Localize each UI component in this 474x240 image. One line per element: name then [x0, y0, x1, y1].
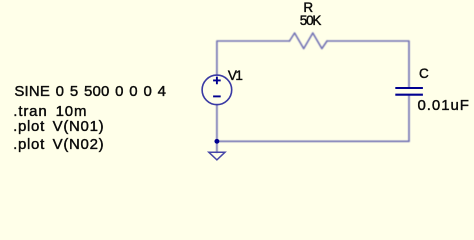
directive .plot V(N01)	[13, 119, 104, 134]
value 0.01uF	[418, 98, 470, 113]
wire: capacitor bottom lead	[408, 96, 410, 142]
value 50K	[300, 14, 320, 28]
directive SINE	[14, 84, 166, 99]
directive .plot V(N02)	[13, 137, 104, 152]
resistor R zigzag body	[290, 33, 328, 49]
V1 plus sign	[213, 77, 221, 85]
wire: V1 top lead to top-left corner to resistor left	[217, 41, 290, 75]
schematic wires and symbols	[0, 0, 474, 170]
directive .tran	[13, 104, 87, 119]
voltage source V1 circle	[202, 75, 232, 105]
wire: bottom horizontal	[217, 140, 409, 142]
label C	[419, 67, 429, 81]
V1 minus sign	[213, 95, 221, 97]
junction dot	[214, 139, 219, 144]
label V1	[228, 69, 242, 83]
wire: ground lead	[216, 141, 218, 152]
capacitor C plates	[395, 88, 423, 95]
wire: V1 bottom lead	[216, 105, 218, 142]
wire: resistor right to top-right corner down to capacitor top	[327, 41, 409, 87]
ground symbol	[209, 152, 225, 160]
label R	[303, 1, 313, 15]
